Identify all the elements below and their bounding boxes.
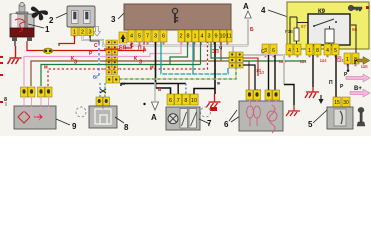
svg-text:6: 6 (224, 120, 229, 129)
heater switch connector (167, 94, 198, 105)
svg-text:15: 15 (334, 100, 340, 106)
svg-text:1: 1 (73, 30, 76, 36)
svg-text:86: 86 (352, 27, 358, 32)
key icon bottom (357, 107, 365, 126)
label 4 leader (268, 10, 288, 17)
svg-text:9: 9 (72, 122, 77, 131)
wire dashed white-red M (48, 42, 208, 86)
wire gray to resistor conn (243, 55, 284, 85)
connector block 2 (67, 6, 95, 27)
wire pink P long (24, 42, 181, 86)
ignition switch box (327, 107, 353, 129)
svg-text:С: С (130, 43, 134, 49)
wires inside resistor box (250, 100, 277, 106)
svg-text:10: 10 (256, 68, 262, 73)
switch slots (180, 109, 188, 129)
svg-text:7: 7 (207, 119, 212, 128)
svg-text:6: 6 (169, 98, 172, 104)
svg-text:1: 1 (45, 25, 50, 34)
svg-text:11: 11 (226, 34, 232, 40)
connector 2 pin row (71, 28, 94, 36)
wire black thick ground (214, 42, 216, 94)
switch lamp (168, 114, 178, 124)
2x3 relay connector (229, 52, 243, 68)
svg-text:8: 8 (186, 34, 189, 40)
svg-text:4: 4 (288, 48, 291, 54)
resistor connectors (246, 90, 261, 100)
svg-text:2: 2 (179, 34, 182, 40)
svg-text:С: С (94, 43, 98, 49)
wire brown drop a (193, 42, 195, 61)
relay contact (314, 19, 334, 26)
dashed circle left (76, 107, 86, 117)
wire brown drop b (220, 42, 222, 61)
svg-text:Б: Б (250, 27, 254, 33)
svg-text:10: 10 (191, 98, 197, 104)
wire relay legs down (312, 45, 314, 47)
wire dashed line A blue (119, 68, 236, 79)
wire gray C (83, 36, 249, 46)
wire fuse down (296, 41, 298, 46)
arrow olive B+ (357, 57, 370, 65)
ignition key icon (348, 5, 362, 11)
svg-text:6: 6 (272, 48, 275, 54)
svg-text:5: 5 (308, 120, 313, 129)
label 1 leader (28, 24, 44, 28)
svg-text:8: 8 (124, 123, 129, 132)
svg-text:9: 9 (214, 34, 217, 40)
motor circle (269, 105, 275, 133)
svg-text:4: 4 (261, 6, 266, 15)
svg-text:5: 5 (138, 34, 141, 40)
svg-text:Ч: Ч (219, 46, 222, 51)
wire red stub left pin group (124, 43, 132, 48)
inline oval connector (43, 48, 53, 53)
pin digits (264, 48, 357, 63)
pin sockets under block (265, 55, 357, 66)
wire red feed (П) (52, 42, 144, 51)
middle multi-pin connector column (106, 40, 118, 75)
wire green Z long (41, 42, 188, 86)
wire dashed blue vertical (98, 43, 100, 76)
dashboard left pin group (128, 30, 167, 42)
fan icon (31, 7, 48, 21)
wire red pin1 drop (59, 36, 75, 47)
wires pink into sensor box (24, 96, 49, 113)
mounting block (item 4) (287, 2, 369, 49)
svg-text:Ш8: Ш8 (361, 64, 368, 69)
pin group S1 (262, 44, 277, 55)
svg-text:10: 10 (219, 34, 225, 40)
ground mid right (red) (305, 87, 319, 98)
svg-text:3: 3 (88, 30, 91, 36)
svg-text:П: П (138, 46, 142, 52)
svg-text:1: 1 (308, 48, 311, 54)
svg-text:8: 8 (316, 48, 319, 54)
arrow pink 2 (350, 89, 370, 97)
svg-text:А: А (243, 2, 249, 11)
resistor box (item 5) (239, 101, 283, 131)
svg-text:F16: F16 (285, 29, 293, 34)
svg-text:А: А (151, 113, 157, 122)
ground switch (red) (207, 94, 221, 107)
temp sensor box (item 8) (14, 106, 56, 129)
pin group labels (279, 55, 368, 69)
label 6 leader (231, 114, 243, 122)
svg-text:4: 4 (326, 48, 329, 54)
svg-text:7: 7 (177, 98, 180, 104)
wire black S5 stub (355, 61, 357, 65)
wire green2 to conn (211, 42, 229, 58)
pin group S5 (344, 53, 359, 64)
svg-text:3: 3 (154, 34, 157, 40)
down arrow A (to switch) (154, 82, 156, 101)
svg-text:7: 7 (146, 34, 149, 40)
svg-text:м: м (44, 65, 48, 71)
svg-text:З: З (74, 60, 77, 66)
wire dashed drop to sensor conn b (104, 83, 106, 97)
arrow pink 1 (346, 74, 370, 82)
speed sensor box (89, 106, 117, 128)
resistor coil b (254, 100, 261, 126)
svg-text:6: 6 (162, 34, 165, 40)
svg-text:87: 87 (301, 24, 307, 29)
small down arrow (320, 95, 322, 100)
wire black S1 drops (268, 55, 270, 91)
svg-text:3: 3 (111, 15, 116, 24)
wire teal drop b (192, 42, 194, 74)
pin sockets (131, 42, 229, 44)
wire black thick left (156, 42, 171, 94)
svg-text:З: З (139, 60, 142, 66)
ignition connector 15 30 (333, 97, 350, 107)
sensor arrow symbol (34, 114, 42, 120)
wire relay right leg (351, 25, 356, 53)
label 9 leader (56, 119, 70, 125)
ignition leader (313, 110, 327, 123)
svg-text:С: С (261, 49, 265, 55)
wire black S3 to ground (312, 55, 314, 87)
wire fuse to relay (297, 23, 308, 29)
svg-text:1: 1 (346, 57, 349, 63)
resistor coil a (247, 100, 254, 126)
fuse F16 (294, 28, 299, 41)
label 5 leader (229, 110, 237, 121)
svg-text:Ш4: Ш4 (320, 58, 327, 63)
wire gray drop to conn (232, 46, 234, 53)
svg-text:БГ: БГ (93, 75, 99, 80)
wire red pin3 stub (90, 36, 99, 45)
relay coil (325, 29, 334, 43)
pin group S4 (324, 44, 339, 55)
wire green3 from conn (243, 60, 306, 62)
heater switch box (item 7) (166, 107, 200, 130)
svg-text:8: 8 (4, 97, 7, 103)
pin group S3 (306, 44, 321, 55)
motor winding mark (15, 19, 25, 32)
svg-text:30: 30 (343, 100, 349, 106)
svg-text:3: 3 (207, 34, 210, 40)
dashboard unit box (item 3) (124, 4, 231, 30)
wires inside sensor box (24, 106, 49, 118)
dashed circle right (201, 107, 211, 117)
dashboard right pin group (178, 30, 232, 42)
label 3 leader (118, 9, 128, 19)
svg-text:2: 2 (49, 16, 54, 25)
wire motor left to ground (14, 41, 16, 46)
svg-text:4: 4 (200, 34, 203, 40)
fan motor M1 body (10, 2, 34, 41)
svg-text:2: 2 (81, 30, 84, 36)
wire gray drop pin5 (139, 43, 141, 46)
speed sensor connector (item 6) (96, 97, 110, 106)
wire dashed drop to switch a (177, 84, 179, 95)
svg-text:4: 4 (130, 34, 133, 40)
svg-text:5: 5 (334, 48, 337, 54)
sensor diamond (18, 111, 30, 123)
svg-text:1: 1 (296, 48, 299, 54)
wire motor right red (27, 41, 43, 51)
svg-text:В+: В+ (354, 86, 362, 92)
relay pin labels (301, 24, 358, 32)
label 2 leader (56, 13, 67, 18)
small inline connector (106, 76, 120, 83)
wire teal drop a (161, 42, 228, 74)
svg-text:П: П (329, 80, 333, 86)
right connector of temp sensor (38, 87, 53, 97)
wire dashed drop to sensor conn a (99, 83, 101, 97)
wire dashed line B teal-yellow (121, 84, 186, 87)
pin group S2 (286, 44, 301, 55)
wire labels small red (44, 43, 219, 71)
wire brown K long (31, 61, 249, 91)
left connector of temp sensor (21, 87, 36, 97)
harness arrow (white) (94, 27, 101, 37)
wire dashed drop to switch b (185, 84, 187, 95)
wire crossings over column (104, 46, 120, 70)
red mark (210, 107, 217, 111)
wire black S4 to ignition (335, 55, 337, 97)
svg-text:1: 1 (193, 34, 196, 40)
ground left (red) (8, 46, 22, 64)
dashboard key glyph (172, 8, 178, 23)
wire black elbow to switch (194, 89, 215, 95)
harness arrow pin (yellow) (119, 32, 127, 43)
junction dot (143, 103, 145, 105)
left edge marks (0, 56, 3, 103)
wire gray from node A (247, 18, 249, 46)
label 7 leader (199, 119, 210, 124)
svg-text:8: 8 (184, 98, 187, 104)
svg-text:м: м (150, 65, 154, 71)
svg-text:БП: БП (119, 46, 127, 52)
